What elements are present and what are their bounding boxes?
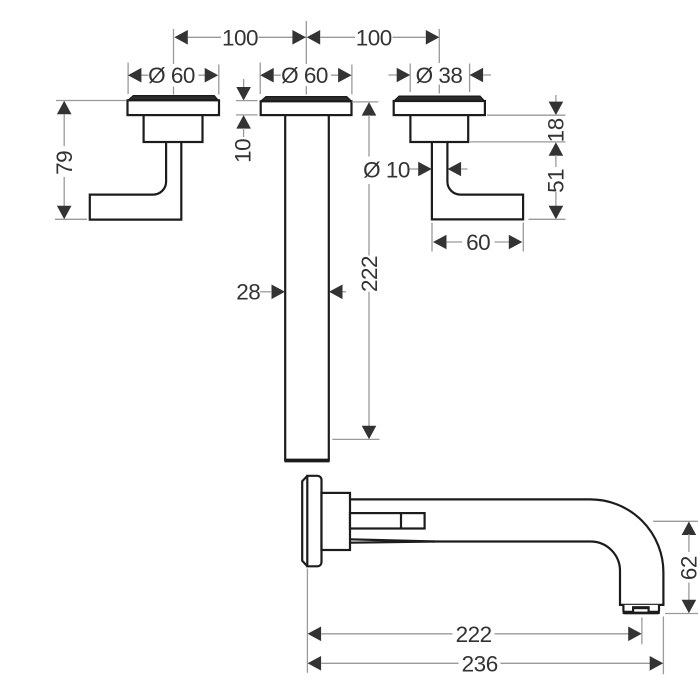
dim 10 plate leader below — [243, 128, 245, 137]
svg-text:222: 222 — [456, 622, 492, 647]
left handle lever — [90, 142, 182, 220]
svg-text:51: 51 — [543, 169, 568, 193]
pipe bottom thick edge — [284, 459, 329, 463]
dim 79 line upper — [63, 114, 65, 146]
dim 60 arrow left — [433, 235, 447, 250]
dim 60: extension lines — [432, 223, 523, 252]
dim 10 plate arrow down — [236, 87, 251, 101]
right handle socket — [410, 115, 468, 142]
dim 28 right tail — [343, 291, 346, 293]
dim D60 left leader lines — [142, 74, 206, 76]
dim D60 middle: extension lines — [260, 63, 352, 95]
svg-text:79: 79 — [52, 151, 77, 175]
spout pipe front view — [285, 115, 329, 460]
aerator bottom edge — [623, 611, 660, 614]
dim 51 line upper — [555, 155, 557, 167]
spout taper line upper — [350, 539, 435, 541]
dim 10 plate: leader above — [243, 79, 245, 89]
dim D38: extension lines — [410, 64, 469, 93]
svg-text:Ø 60: Ø 60 — [281, 63, 328, 88]
dim 100 right line — [320, 36, 425, 38]
svg-text:Ø 38: Ø 38 — [416, 63, 463, 88]
wall flange outer lip — [302, 476, 307, 566]
dim 100 left: extension line left handle centre — [173, 29, 175, 95]
dim D38 arrow right — [470, 68, 484, 83]
spout tube outline — [350, 499, 663, 605]
dim 100 left arrow right — [292, 30, 306, 45]
dim 51 extension line — [529, 218, 566, 220]
dim 51 arrow down — [549, 206, 564, 220]
dim 236 arrow left — [308, 656, 322, 671]
dim 51 line lower — [555, 192, 557, 206]
svg-text:222: 222 — [357, 256, 382, 292]
dim 62: bottom extension line — [665, 613, 698, 615]
svg-text:10: 10 — [231, 139, 256, 163]
dim 62: top extension line — [653, 520, 698, 522]
svg-text:Ø 60: Ø 60 — [148, 63, 195, 88]
dim 222 bottom: left extension line — [306, 569, 308, 673]
dim 222 vertical bottom extension line — [332, 438, 379, 440]
left handle cap top band — [128, 96, 218, 101]
dim D60 middle arrow left — [260, 68, 274, 83]
wall flange body — [307, 476, 321, 567]
dim 222 vertical arrow down — [362, 426, 377, 440]
dim 222 vertical line lower — [368, 292, 370, 427]
right handle lever — [432, 142, 523, 219]
dim 222 bottom arrow left — [308, 627, 322, 642]
dim D10 leader — [410, 168, 419, 170]
right handle cap top band — [394, 96, 484, 101]
right handle cap — [394, 101, 485, 115]
dim 222 vertical line upper — [368, 115, 370, 256]
dim 100 left line — [188, 36, 306, 38]
escutcheon cap — [261, 101, 352, 115]
svg-text:100: 100 — [356, 25, 392, 50]
svg-text:100: 100 — [222, 25, 258, 50]
svg-text:60: 60 — [466, 230, 490, 255]
dim 62 line upper — [688, 534, 690, 552]
dim 100: extension line right handle centre — [438, 29, 440, 94]
dim 236 arrow right — [650, 656, 664, 671]
svg-text:62: 62 — [677, 556, 700, 580]
escutcheon cap top band — [261, 97, 351, 102]
dim 100 right arrow right — [426, 30, 440, 45]
dim 18: leader above — [555, 95, 557, 102]
dim 28 leader — [260, 291, 271, 293]
dim 100 left arrow left — [174, 30, 188, 45]
dim 10 plate extension lines — [236, 101, 258, 115]
dim 79: extension lines — [55, 101, 126, 220]
dim D60 middle arrow right — [338, 68, 352, 83]
dim 62 arrow down — [682, 600, 697, 614]
aerator ring — [623, 605, 659, 613]
spout mounting body — [322, 493, 351, 550]
svg-text:236: 236 — [462, 651, 498, 676]
dim D10 arrow left — [448, 162, 462, 177]
dim 236 line — [321, 662, 650, 664]
dim D60 left: extension lines — [128, 63, 219, 95]
dim 10 plate arrow up — [236, 115, 251, 129]
dim 222 vertical arrow up — [362, 102, 377, 116]
cartridge divider — [400, 513, 402, 528]
aerator insert — [633, 607, 649, 612]
dim 79 arrow up — [57, 101, 72, 115]
dim 79 line lower — [63, 177, 65, 206]
dim 62 line lower — [688, 583, 690, 601]
cartridge box — [350, 513, 425, 528]
dim 100: extension line escutcheon centre — [305, 21, 307, 95]
dim D60 middle leader lines — [274, 74, 338, 76]
dim 18 extension lines — [470, 115, 566, 142]
dim 236: right extension line — [662, 617, 664, 675]
dim 60 line — [447, 241, 509, 243]
dim D38 arrow left — [397, 68, 411, 83]
dim D10 arrow right — [418, 162, 432, 177]
dim 62 arrow up — [682, 522, 697, 536]
dim 222 vertical: top extension line — [352, 101, 379, 103]
aerator insert top edge — [633, 606, 649, 609]
dim D38 left tail — [389, 74, 397, 76]
dim 100 right arrow left — [307, 30, 321, 45]
left handle socket — [144, 115, 203, 142]
dim D38 right tail — [483, 74, 491, 76]
svg-text:Ø 10: Ø 10 — [363, 157, 410, 182]
dim 222 bottom: right extension line — [641, 618, 643, 645]
svg-text:28: 28 — [236, 280, 260, 305]
svg-text:18: 18 — [543, 118, 568, 142]
spout taper line lower — [350, 542, 435, 543]
dim D60 left arrow right — [205, 68, 219, 83]
dim 79 arrow down — [57, 206, 72, 220]
dim 18 arrow down — [549, 102, 564, 116]
dim 28 arrow right — [272, 285, 286, 300]
dim 28 arrow left — [329, 285, 343, 300]
dim 51 arrow up — [549, 142, 564, 156]
dim 60 arrow right — [509, 235, 523, 250]
dim D10 right tail — [461, 168, 467, 170]
dim D60 left arrow left — [128, 68, 141, 83]
dim 222 bottom line — [321, 633, 628, 635]
left handle cap — [128, 100, 220, 115]
dim 222 bottom arrow right — [628, 627, 642, 642]
